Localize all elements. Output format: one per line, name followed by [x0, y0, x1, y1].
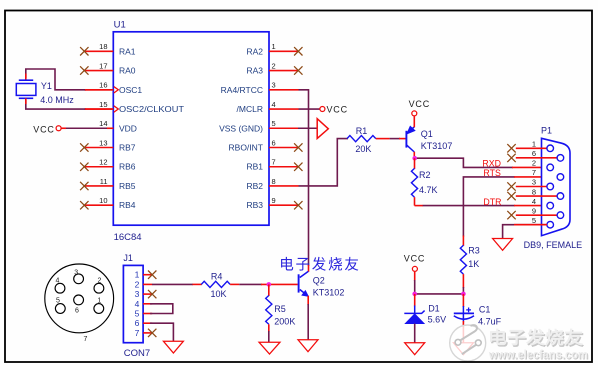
svg-text:3: 3 [74, 269, 78, 276]
DIN pin 5 circle [55, 304, 65, 314]
svg-text:VDD: VDD [119, 123, 137, 133]
IC U1 16C84 body [113, 32, 269, 225]
wire red stub DB9 pin 8 [516, 195, 557, 197]
svg-text:R1: R1 [356, 126, 368, 136]
svg-text:2: 2 [272, 61, 276, 70]
transistor Q2 emitter [300, 290, 308, 297]
ground symbol at J1 pin 6 [163, 341, 183, 353]
svg-text:RB5: RB5 [119, 181, 136, 191]
no-connect X on U1 pin 10 [80, 201, 88, 209]
svg-text:2: 2 [135, 279, 140, 289]
wire red RTS into DB9 pin 7 [514, 176, 557, 178]
no-connect X on U1 pin 17 [80, 66, 88, 74]
wire red stub DB9 pin 9 [516, 214, 557, 216]
connector P1 DB9 shell [542, 138, 571, 235]
P1 pin 7 circle [557, 174, 564, 181]
svg-text:9: 9 [272, 196, 276, 205]
svg-text:1: 1 [97, 298, 101, 305]
svg-text:3: 3 [272, 81, 276, 90]
power port VCC circle at /MCLR [320, 107, 325, 112]
wire red junction to R5 top [268, 284, 270, 296]
no-connect X on U1 pin 6 [294, 143, 302, 151]
resistor R2 [411, 168, 417, 197]
wire RB2 to R1 left end [299, 139, 349, 186]
transistor Q2 collector [300, 271, 309, 277]
clock caret on OSC2/CLKOUT pin [114, 106, 119, 112]
wire D1 anode to ground [414, 324, 416, 343]
svg-text:1: 1 [135, 270, 140, 280]
no-connect X on U1 pin 11 [80, 182, 88, 190]
wire red stub Q2 collector [308, 265, 310, 272]
resistor R1 [347, 136, 376, 142]
svg-text:KT3107: KT3107 [421, 141, 453, 151]
svg-text:2: 2 [98, 277, 102, 284]
wire red stub VCC circle [61, 127, 66, 129]
wire red stub into VDD [107, 127, 113, 129]
U1 pin 9 RB3 stub [269, 204, 299, 206]
svg-text:5: 5 [56, 298, 60, 305]
wire red stub into Q1 base [399, 138, 406, 140]
U1 pin 7 RB1 stub [269, 166, 299, 168]
wire VCC to Q1 emitter [413, 116, 415, 127]
svg-text:14: 14 [99, 119, 107, 128]
wire red Q1 collector junction to R2 [414, 158, 416, 169]
U1 pin 12 RB6 stub [85, 166, 114, 168]
wire red stub crystal bottom [25, 98, 27, 104]
svg-text:16: 16 [99, 81, 107, 90]
wire RTS from DB9 pin 7 to R3 [463, 177, 514, 237]
svg-text:Q2: Q2 [313, 275, 325, 285]
svg-text:3: 3 [135, 289, 140, 299]
svg-text:RB6: RB6 [119, 162, 136, 172]
svg-text:3: 3 [532, 178, 536, 187]
DIN pin 3 circle [74, 274, 84, 284]
wire junction D1 to junction C1 [415, 293, 464, 295]
capacitor C1 top lead [462, 306, 464, 322]
svg-text:Q1: Q1 [421, 129, 433, 139]
svg-text:4.7uF: 4.7uF [478, 316, 502, 326]
wire VCC to VDD pin 14 [63, 127, 108, 129]
U1 pin 11 RB5 stub [85, 185, 114, 187]
svg-text:RA2: RA2 [246, 46, 263, 56]
U1 pin 2 RA3 stub [269, 70, 299, 72]
svg-text:18: 18 [99, 42, 107, 51]
svg-text:12: 12 [99, 158, 107, 167]
wire J1 pin 6 to ground [150, 323, 173, 341]
wire red DTR into DB9 pin 4 [514, 205, 547, 207]
svg-text:4: 4 [532, 197, 536, 206]
svg-text:VCC: VCC [409, 99, 430, 109]
resistor R4 [201, 281, 230, 287]
no-connect X on U1 pin 7 [294, 163, 302, 171]
wire VCC to D1 junction [414, 280, 416, 294]
J1 pin 7 stub [143, 332, 152, 334]
wire red stub R4 left [193, 283, 202, 285]
wire crystal bottom to OSC2/CLKOUT [26, 100, 86, 109]
wire red stub crystal top [25, 74, 27, 81]
U1 pin 16 OSC1 stub [85, 89, 114, 91]
svg-text:www.elecfans.com: www.elecfans.com [488, 347, 588, 361]
wire red stub DB9 pin 1 [516, 147, 547, 149]
U1 pin 3 RA4/RTCC stub [269, 89, 299, 91]
svg-text:17: 17 [99, 61, 107, 70]
svg-text:R4: R4 [211, 272, 223, 282]
svg-text:1: 1 [272, 42, 276, 51]
no-connect X on DB9 pin 1 [507, 144, 515, 152]
connector J1 body [123, 265, 143, 342]
gray watermark logo circle [450, 325, 486, 361]
wire red stub DB9 pin 6 [516, 157, 557, 159]
svg-text:J1: J1 [123, 253, 133, 263]
junction dot above D1 [412, 292, 417, 297]
svg-text:10K: 10K [211, 289, 227, 299]
svg-text:2: 2 [532, 159, 536, 168]
capacitor C1 curved plate [454, 316, 474, 319]
wire DTR run to DB9 pin 4 [423, 205, 515, 207]
transistor Q1 base bar [405, 131, 407, 148]
svg-text:RTS: RTS [483, 168, 501, 178]
svg-text:DB9, FEMALE: DB9, FEMALE [524, 240, 583, 250]
svg-text:6: 6 [75, 307, 79, 314]
wire red RXD into DB9 pin 2 [512, 166, 547, 168]
svg-text:7: 7 [83, 336, 87, 343]
no-connect X on U1 pin 13 [80, 143, 88, 151]
DIN connector outer circle [45, 264, 114, 333]
wire red junction to Q2 base [261, 283, 298, 285]
svg-text:4.0 MHz: 4.0 MHz [40, 95, 74, 105]
svg-text:R2: R2 [419, 170, 431, 180]
svg-text:6: 6 [272, 138, 276, 147]
junction dot at Q2 base [267, 282, 272, 287]
svg-text:7: 7 [135, 328, 140, 338]
crystal Y1 body [16, 84, 36, 96]
resistor R3 [460, 245, 466, 274]
wire red junction to D1 [414, 294, 416, 307]
U1 pin 18 RA1 stub [85, 50, 114, 52]
capacitor C1 top plate [454, 312, 474, 314]
wire DB9 pin 5 to ground [503, 225, 547, 239]
wire R5 bottom to ground [268, 331, 270, 342]
wire /MCLR to VCC [299, 108, 320, 110]
zener diode D1 triangle [405, 314, 424, 324]
U1 pin 8 RB2 stub [269, 185, 299, 187]
clock caret on OSC1 pin [114, 87, 119, 93]
DIN pin 2 circle [94, 283, 104, 293]
wire red stub R3 top [462, 236, 464, 246]
no-connect X on U1 pin 2 [294, 66, 302, 74]
svg-text:VSS (GND): VSS (GND) [219, 123, 263, 133]
transistor Q2 base bar [298, 274, 300, 292]
wire red stub into OSC1 [85, 89, 113, 91]
wire R4 to Q2 base junction [239, 283, 262, 285]
no-connect X on J1 pin 1 [148, 271, 156, 279]
svg-text:KT3102: KT3102 [313, 288, 345, 298]
svg-text:OSC1: OSC1 [119, 85, 142, 95]
Q2 emitter NPN arrow [302, 291, 309, 297]
svg-text:RB4: RB4 [119, 200, 136, 210]
zener diode D1 cathode bar [404, 311, 424, 314]
svg-text:P1: P1 [541, 126, 552, 136]
crystal Y1 bottom plate [19, 97, 33, 99]
svg-text:6: 6 [135, 318, 140, 328]
svg-text:RBO/INT: RBO/INT [229, 143, 263, 153]
ground symbol at DB9 pin 5 [493, 239, 513, 251]
no-connect X on DB9 pin 3 [507, 182, 515, 190]
no-connect X on U1 pin 1 [294, 47, 302, 55]
svg-text:VCC: VCC [404, 253, 425, 263]
no-connect X on J1 pin 3 [148, 290, 156, 298]
wire junction to RXD line [415, 158, 514, 167]
wire red VCC circle down [414, 272, 416, 281]
P1 pin 1 circle [547, 145, 554, 152]
svg-text:5: 5 [272, 119, 276, 128]
zener diode D1 lead [414, 306, 416, 314]
wire red stub R2 bottom [414, 197, 416, 205]
wire red R2 corner [415, 205, 424, 207]
P1 pin 5 circle [547, 221, 554, 228]
wire red junction to C1 [462, 294, 464, 307]
svg-text:13: 13 [99, 138, 107, 147]
wire red stub DB9 pin 3 [516, 186, 547, 188]
svg-text:8: 8 [532, 187, 536, 196]
wire red Q2 emitter down [307, 296, 309, 305]
svg-text:RB3: RB3 [246, 200, 263, 210]
DIN pin 4 circle [55, 283, 65, 293]
U1 pin 17 RA0 stub [85, 70, 114, 72]
svg-text:5.6V: 5.6V [428, 314, 447, 324]
ground symbol under D1 [405, 343, 425, 355]
svg-text:4.7K: 4.7K [419, 185, 438, 195]
svg-text:7: 7 [272, 158, 276, 167]
svg-text:1K: 1K [468, 259, 479, 269]
U1 pin 4 /MCLR stub [269, 108, 299, 110]
svg-text:4: 4 [272, 100, 276, 109]
ground symbol under C1 [453, 343, 473, 355]
no-connect X on U1 pin 9 [294, 201, 302, 209]
wire red stub R5 bottom [268, 324, 270, 331]
wire VSS (GND) to arrow [298, 127, 317, 129]
svg-text:RB7: RB7 [119, 143, 136, 153]
junction dot above C1 [461, 292, 466, 297]
power port VCC circle at VDD [56, 126, 61, 131]
svg-text:RXD: RXD [482, 158, 501, 168]
J1 pin 3 stub [143, 293, 152, 295]
J1 pin 2 stub [143, 283, 152, 285]
no-connect X on U1 pin 18 [80, 47, 88, 55]
svg-text:/MCLR: /MCLR [237, 104, 263, 114]
wire Q1 collector to junction [413, 152, 415, 158]
DIN pin 1 circle [94, 304, 104, 314]
svg-text:U1: U1 [114, 20, 126, 31]
svg-text:6: 6 [532, 149, 536, 158]
ground symbol under Q2 [298, 340, 318, 352]
svg-text:R3: R3 [468, 245, 480, 255]
wire crystal top to OSC1 [26, 69, 86, 90]
svg-text:DTR: DTR [483, 197, 501, 207]
svg-text:20K: 20K [355, 144, 371, 154]
svg-text:OSC2/CLKOUT: OSC2/CLKOUT [119, 104, 184, 114]
wire R3 bottom to junction [462, 287, 464, 294]
wire RA4/RTCC to Q2 collector [299, 90, 309, 266]
svg-text:VCC: VCC [327, 104, 348, 114]
power port VCC circle above D1 [412, 266, 417, 271]
svg-text:Y1: Y1 [41, 81, 52, 91]
svg-text:电子发烧友: 电子发烧友 [488, 328, 584, 348]
svg-text:VCC: VCC [33, 125, 54, 135]
transistor Q1 collector [406, 145, 414, 152]
transistor Q1 emitter (to VCC) [406, 127, 414, 134]
svg-text:16C84: 16C84 [114, 232, 142, 243]
J1 pin 1 stub [143, 274, 152, 276]
svg-text:8: 8 [272, 177, 276, 186]
svg-text:CON7: CON7 [124, 348, 150, 359]
P1 pin 8 circle [557, 193, 564, 200]
resistor R5 [266, 296, 272, 325]
P1 pin 4 circle [547, 202, 554, 209]
no-connect X on J1 pin 7 [148, 329, 156, 337]
U1 pin 6 RBO/INT stub [269, 147, 299, 149]
crystal Y1 top plate [19, 79, 33, 81]
U1 pin 5 VSS (GND) stub [269, 127, 299, 129]
no-connect X on DB9 pin 9 [507, 211, 515, 219]
wire Q2 emitter to ground [307, 304, 309, 340]
svg-text:15: 15 [99, 100, 107, 109]
svg-text:10: 10 [99, 196, 107, 205]
wire red stub R1 right [376, 138, 390, 140]
U1 pin 1 RA2 stub [269, 50, 299, 52]
svg-text:RA0: RA0 [119, 66, 136, 76]
no-connect X on DB9 pin 6 [507, 154, 515, 162]
wire red stub into OSC2/CLKOUT [85, 108, 113, 110]
svg-text:R5: R5 [274, 304, 286, 314]
wire C1 bottom to ground [462, 321, 464, 343]
U1 pin 10 RB4 stub [85, 204, 114, 206]
svg-text:200K: 200K [274, 316, 295, 326]
svg-text:RA4/RTCC: RA4/RTCC [221, 85, 263, 95]
VSS (GND) open arrow symbol [317, 119, 328, 139]
svg-text:RA1: RA1 [119, 46, 136, 56]
wire J1 pin 2 to R4 [152, 283, 193, 285]
svg-text:RA3: RA3 [246, 66, 263, 76]
svg-text:1: 1 [532, 140, 536, 149]
svg-text:11: 11 [100, 177, 108, 186]
Q1 emitter PNP arrow [407, 126, 415, 134]
svg-text:9: 9 [532, 206, 536, 215]
svg-text:电子发烧友: 电子发烧友 [279, 257, 361, 274]
U1 pin 13 RB7 stub [85, 147, 114, 149]
U1 pin 15 OSC2/CLKOUT stub [85, 108, 114, 110]
P1 pin 9 circle [557, 212, 564, 219]
DIN pin 6 circle [74, 295, 84, 305]
no-connect X on DB9 pin 8 [507, 192, 515, 200]
svg-text:RB2: RB2 [246, 181, 263, 191]
svg-text:5: 5 [532, 216, 536, 225]
capacitor C1 plus sign [466, 308, 471, 313]
P1 pin 6 circle [557, 155, 564, 162]
wire red stub R3 bottom [462, 274, 464, 288]
P1 pin 2 circle [547, 164, 554, 171]
wire red stub DB9 pin 5 [514, 224, 547, 226]
no-connect X on U1 pin 12 [80, 163, 88, 171]
svg-text:4: 4 [135, 299, 140, 309]
svg-text:C1: C1 [479, 304, 491, 314]
U1 pin 14 VDD stub [85, 127, 114, 129]
svg-text:4: 4 [56, 277, 60, 284]
ground symbol under R5 [259, 342, 280, 354]
svg-text:5: 5 [135, 309, 140, 319]
svg-text:D1: D1 [428, 304, 440, 314]
J1 pin 4 stub [143, 303, 152, 305]
junction dot at Q1 collector [412, 156, 417, 161]
wire R1 to Q1 base [390, 138, 400, 140]
svg-text:7: 7 [532, 168, 536, 177]
J1 pin 6 stub [143, 322, 152, 324]
power port VCC circle above Q1 [412, 111, 417, 116]
P1 pin 3 circle [547, 183, 554, 190]
wire red stub R4 right [230, 283, 239, 285]
J1 pin 5 stub [143, 313, 152, 315]
svg-text:RB1: RB1 [246, 162, 263, 172]
wire J1 pins 4-5 loop [150, 304, 173, 314]
